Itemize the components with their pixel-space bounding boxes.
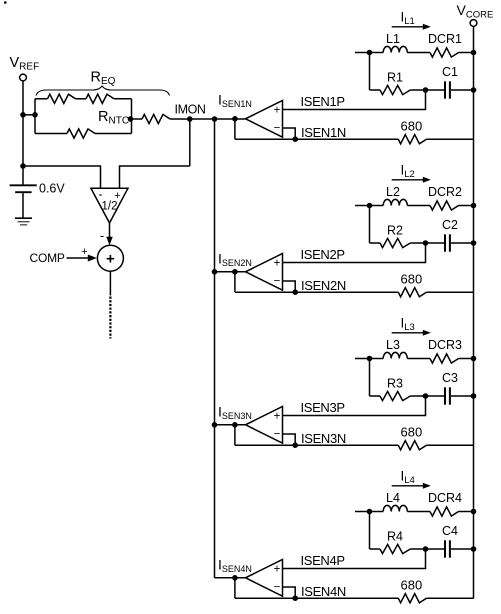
junction minus stub ch2 [292, 289, 298, 295]
resistor R4 [380, 544, 410, 553]
wire top stub [355, 205, 383, 207]
op-amp ISEN4 [246, 560, 283, 597]
wire R3 to junction [410, 395, 444, 397]
wire COMP arrow [67, 257, 90, 259]
capacitor C2 [444, 234, 446, 251]
svg-text:−: − [274, 429, 281, 441]
resistor (REQ series element 1, box top) [48, 94, 76, 103]
junction on VREF line to REQ box [20, 112, 26, 118]
junction at box left edge [32, 112, 38, 118]
svg-text:L3: L3 [386, 338, 400, 352]
wire bottom line ch2 [235, 291, 398, 293]
wire R4 to junction [410, 548, 444, 550]
wire VREF vertical [22, 81, 24, 185]
wire left vertical L to R [369, 53, 371, 91]
resistor (REQ series element 2, box top) [86, 94, 114, 103]
terminal VREF [20, 74, 27, 81]
brace over REQ [36, 86, 170, 96]
wire left vertical L to R [369, 512, 371, 550]
junction bus ch3 [212, 422, 218, 428]
svg-text:ISEN4P: ISEN4P [301, 553, 345, 568]
REQ network box right edge [131, 99, 133, 134]
svg-text:−: − [274, 276, 281, 288]
svg-text:R3: R3 [387, 377, 403, 391]
wire top stub [355, 358, 383, 360]
svg-text:L4: L4 [386, 491, 400, 505]
resistor (REQ series to IMON) [142, 114, 170, 123]
svg-text:C3: C3 [442, 371, 458, 385]
svg-text:0.6V: 0.6V [39, 182, 65, 196]
node IMON junction [187, 116, 193, 122]
inductor L4 [383, 505, 407, 511]
resistor R1 [380, 85, 410, 94]
junction rail C line ch2 [471, 240, 477, 246]
junction input/feedback ch3 [232, 422, 238, 428]
wire C3 to rail [451, 395, 474, 397]
junction top-left node [367, 50, 373, 56]
wire top stub [355, 52, 383, 54]
wire summer output solid [109, 271, 111, 295]
svg-text:ISEN2P: ISEN2P [301, 247, 345, 262]
resistor DCR3 [430, 354, 459, 363]
wire IMON to divider + input [120, 166, 190, 188]
svg-text:C4: C4 [442, 524, 458, 538]
capacitor C3 [444, 387, 446, 404]
wire feedback vertical ch3 [234, 425, 236, 445]
wire ISEN bus vertical [214, 119, 216, 578]
REQ network box left edge [34, 99, 36, 134]
svg-text:ISEN1P: ISEN1P [301, 94, 345, 109]
wire divider output [109, 223, 111, 238]
wire inductor to DCR4 [407, 511, 430, 513]
wire to box left edge [23, 114, 35, 116]
wire R line left [370, 395, 381, 397]
svg-text:680: 680 [401, 271, 423, 286]
wire feedback vertical ch4 [234, 578, 236, 598]
wire box to series resistor [132, 118, 143, 120]
wire resistor to IMON [170, 118, 190, 120]
svg-text:+: + [274, 564, 281, 576]
junction bus ch2 [212, 269, 218, 275]
resistor 680 ch1 [398, 135, 426, 144]
resistor 680 ch4 [398, 594, 426, 603]
junction input/feedback ch1 [232, 116, 238, 122]
junction at box right edge [128, 116, 134, 122]
svg-text:−: − [274, 123, 281, 135]
wire summer output dotted [109, 297, 111, 339]
arrow IL1 [392, 26, 425, 28]
svg-text:+: + [274, 105, 281, 117]
svg-text:ISEN2N: ISEN2N [301, 278, 346, 293]
wire DCR1 to rail [459, 52, 474, 54]
wire box top-left [35, 98, 48, 100]
op-amp ISEN1 [246, 101, 283, 138]
junction rail C line ch3 [471, 393, 477, 399]
junction R2/C2/ISEN2P [423, 240, 429, 246]
wire R1 to junction [410, 89, 444, 91]
svg-text:C2: C2 [442, 218, 458, 232]
junction R3/C3/ISEN3P [423, 393, 429, 399]
resistor R3 [380, 391, 410, 400]
junction rail top line ch1 [471, 50, 477, 56]
wire minus stub ch2 [283, 281, 296, 292]
wire feedback vertical ch1 [234, 119, 236, 139]
svg-text:1/2: 1/2 [102, 201, 118, 213]
summing junction [97, 245, 123, 271]
svg-text:−: − [274, 582, 281, 594]
wire VREF to divider - input [23, 166, 101, 188]
junction top-left node [367, 356, 373, 362]
svg-text:R4: R4 [387, 530, 403, 544]
wire ISEN4P [283, 549, 426, 569]
wire feedback vertical ch2 [234, 272, 236, 292]
svg-text:ISEN4N: ISEN4N [301, 584, 346, 599]
svg-text:680: 680 [401, 118, 423, 133]
svg-text:+: + [274, 258, 281, 270]
wire 680 to rail ch4 [426, 597, 473, 599]
wire R line left [370, 89, 381, 91]
wire left vertical L to R [369, 359, 371, 397]
svg-text:DCR1: DCR1 [428, 32, 462, 46]
wire 680 to rail ch2 [426, 291, 473, 293]
wire C4 to rail [451, 548, 474, 550]
wire minus stub ch4 [283, 587, 296, 598]
svg-text:ISEN3P: ISEN3P [301, 400, 345, 415]
op-amp ISEN2 [246, 254, 283, 291]
svg-text:COMP: COMP [30, 251, 65, 265]
wire minus stub ch3 [283, 434, 296, 445]
resistor 680 ch2 [398, 288, 426, 297]
svg-text:L2: L2 [386, 185, 400, 199]
capacitor C1 [444, 81, 446, 98]
arrow IL3 [392, 332, 425, 334]
junction rail top line ch4 [471, 509, 477, 515]
resistor DCR1 [430, 48, 459, 57]
wire VCORE rail [473, 26, 475, 598]
battery 0.6V bottom plate [15, 191, 31, 193]
svg-text:L1: L1 [386, 32, 400, 46]
wire inductor to DCR3 [407, 358, 430, 360]
wire ISEN1P [283, 90, 426, 110]
wire DCR4 to rail [459, 511, 474, 513]
svg-text:+: + [274, 411, 281, 423]
junction rail C line ch4 [471, 546, 477, 552]
wire top stub [355, 511, 383, 513]
wire bus corner to amp input ch4 [215, 577, 246, 579]
wire DCR2 to rail [459, 205, 474, 207]
wire 680 to rail ch1 [426, 138, 473, 140]
wire inductor to DCR1 [407, 52, 430, 54]
wire box bottom-right [95, 133, 132, 135]
junction VREF line to divider [20, 163, 26, 169]
junction R4/C4/ISEN4P [423, 546, 429, 552]
wire bottom line ch4 [235, 597, 398, 599]
arrow into summer [106, 237, 113, 246]
svg-text:-: - [100, 228, 104, 243]
inductor L2 [383, 199, 407, 205]
inductor L1 [383, 46, 407, 52]
svg-text:+: + [106, 250, 115, 267]
wire bottom line ch1 [235, 138, 398, 140]
wire bus to amp input ch3 [215, 424, 246, 426]
svg-text:680: 680 [401, 424, 423, 439]
junction R1/C1/ISEN1P [423, 87, 429, 93]
junction input/feedback ch2 [232, 269, 238, 275]
svg-text:ISEN3N: ISEN3N [301, 431, 346, 446]
junction minus stub ch1 [292, 136, 298, 142]
junction rail top line ch3 [471, 356, 477, 362]
wire box bottom-left [35, 133, 67, 135]
wire bus to amp input ch2 [215, 271, 246, 273]
wire IMON down [189, 119, 191, 166]
svg-text:DCR2: DCR2 [428, 185, 462, 199]
svg-text:IMON: IMON [175, 103, 206, 117]
junction rail top line ch2 [471, 203, 477, 209]
terminal VCORE [470, 20, 477, 27]
wire bottom line ch3 [235, 444, 398, 446]
wire C1 to rail [451, 89, 474, 91]
junction minus stub ch3 [292, 442, 298, 448]
ground [15, 217, 32, 219]
wire ISEN3P [283, 396, 426, 416]
svg-text:DCR3: DCR3 [428, 338, 462, 352]
junction rail C line ch1 [471, 87, 477, 93]
svg-text:-: - [99, 187, 103, 201]
junction top-left node [367, 203, 373, 209]
wire between top resistors [76, 98, 87, 100]
capacitor C4 [444, 540, 446, 557]
wire DCR3 to rail [459, 358, 474, 360]
battery 0.6V top plate [10, 184, 37, 186]
junction input/feedback ch4 [232, 575, 238, 581]
junction top-left node [367, 509, 373, 515]
svg-text:+: + [81, 246, 87, 258]
wire R line left [370, 242, 381, 244]
resistor RNTC (box bottom) [67, 129, 95, 138]
resistor DCR4 [430, 507, 459, 516]
wire inductor to DCR2 [407, 205, 430, 207]
arrow IL4 [392, 485, 425, 487]
svg-text:DCR4: DCR4 [428, 491, 462, 505]
wire minus stub ch1 [283, 128, 296, 139]
resistor R2 [380, 238, 410, 247]
svg-text:680: 680 [401, 577, 423, 592]
inductor L3 [383, 352, 407, 358]
wire C2 to rail [451, 242, 474, 244]
svg-text:R1: R1 [387, 71, 403, 85]
wire ISEN2P [283, 243, 426, 263]
junction minus stub ch4 [292, 595, 298, 601]
wire battery to ground [22, 192, 24, 218]
arrow IL2 [392, 179, 425, 181]
op-amp ISEN3 [246, 407, 283, 444]
wire R line left [370, 548, 381, 550]
wire box top-right [114, 98, 132, 100]
wire left vertical L to R [369, 206, 371, 244]
junction bus ch1 [212, 116, 218, 122]
op-amp divider 1/2 [91, 188, 128, 223]
wire R2 to junction [410, 242, 444, 244]
resistor DCR2 [430, 201, 459, 210]
resistor 680 ch3 [398, 441, 426, 450]
svg-text:C1: C1 [442, 65, 458, 79]
wire 680 to rail ch3 [426, 444, 473, 446]
svg-text:R2: R2 [387, 224, 403, 238]
svg-text:ISEN1N: ISEN1N [301, 125, 346, 140]
stray dot top-left [4, 1, 7, 4]
wire IMON to amp input [190, 118, 246, 120]
